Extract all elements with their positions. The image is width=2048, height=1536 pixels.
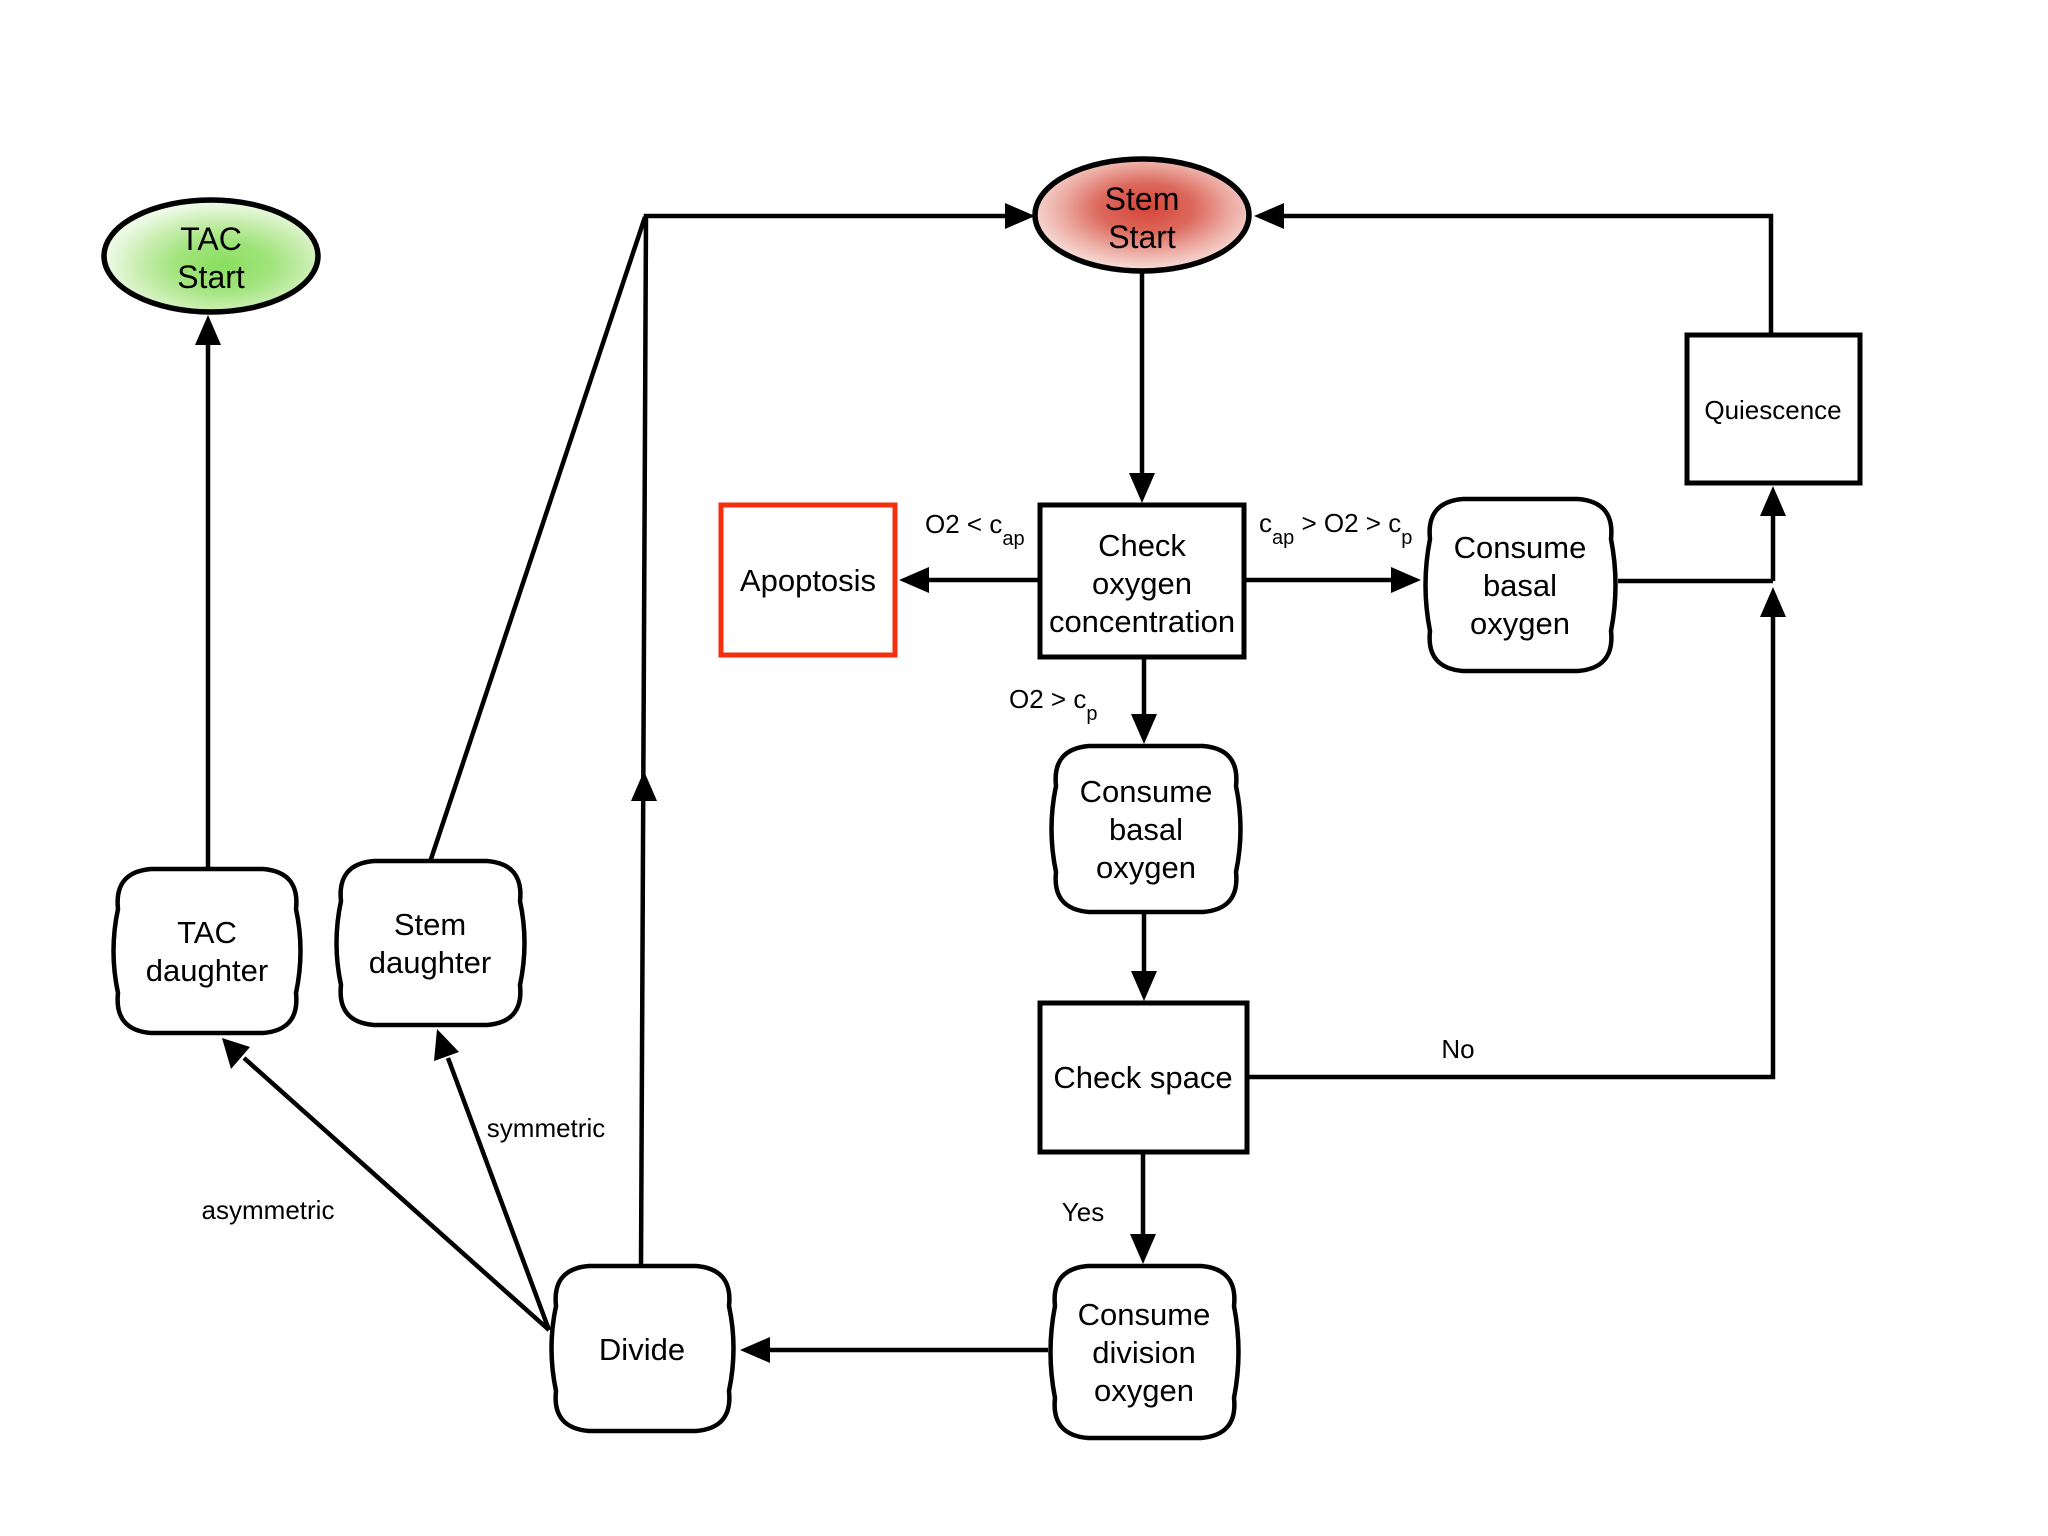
node Consume basal oxygen (right) [1426,499,1616,671]
svg-text:Stem: Stem [1105,181,1180,217]
wire: Consume basal oxygen (centre) down to Check space [1142,912,1147,971]
node Apoptosis (red box) [721,505,895,655]
wire: junction up into Quiescence [1771,516,1776,581]
node Consume division oxygen [1051,1266,1239,1438]
wire: Stem Start down to Check oxygen [1140,272,1145,474]
wire: Quiescence top up and left into Stem Start [1284,216,1771,334]
svg-text:daughter: daughter [146,953,268,988]
node TAC daughter [114,869,301,1033]
node Divide [552,1266,734,1431]
node Stem Start (red ellipse) [1035,159,1249,271]
node TAC Start (green ellipse) [104,200,318,312]
svg-text:Start: Start [1108,219,1176,255]
svg-text:asymmetric: asymmetric [202,1195,335,1225]
svg-text:Divide: Divide [599,1332,685,1367]
svg-text:division: division [1092,1335,1195,1370]
svg-text:No: No [1441,1034,1474,1064]
wire: Divide top up to corner then right into Stem Start [641,216,1007,1266]
node Check space [1040,1003,1247,1152]
svg-text:oxygen: oxygen [1092,566,1192,601]
svg-text:oxygen: oxygen [1094,1373,1194,1408]
svg-text:daughter: daughter [369,945,491,980]
svg-text:Check: Check [1098,528,1186,563]
svg-text:Start: Start [177,259,245,295]
svg-text:TAC: TAC [177,915,237,950]
wire: Divide diagonal to Stem daughter (symmetric) [448,1058,549,1330]
svg-text:Consume: Consume [1080,774,1213,809]
wire: Check oxygen down to Consume basal oxygen (centre) [1142,657,1147,714]
svg-text:symmetric: symmetric [487,1113,605,1143]
node Check oxygen concentration [1040,505,1244,657]
wire mid arrowhead on Divide-to-corner vertical [631,771,657,801]
svg-text:basal: basal [1109,812,1183,847]
svg-text:oxygen: oxygen [1470,606,1570,641]
wire: Divide diagonal to TAC daughter (asymmetric) [244,1058,549,1330]
svg-text:Check space: Check space [1053,1060,1232,1095]
svg-text:Quiescence: Quiescence [1704,395,1841,425]
svg-text:Stem: Stem [394,907,466,942]
wire: Stem daughter top diagonal to corner [430,217,645,862]
node Stem daughter [337,861,525,1025]
wire arrowhead into Stem Start left [1005,203,1035,229]
svg-text:TAC: TAC [180,221,242,257]
svg-text:Apoptosis: Apoptosis [740,563,876,598]
svg-text:concentration: concentration [1049,604,1235,639]
svg-text:oxygen: oxygen [1096,850,1196,885]
wire: TAC daughter top to TAC Start [206,344,211,869]
node Consume basal oxygen (centre) [1052,746,1241,912]
node Quiescence [1687,335,1860,483]
svg-text:Consume: Consume [1078,1297,1211,1332]
svg-text:Consume: Consume [1454,530,1587,565]
svg-text:basal: basal [1483,568,1557,603]
svg-text:Yes: Yes [1062,1197,1104,1227]
wire: Check space right then up (No path) to junction [1247,617,1773,1077]
wire: Check oxygen left to Apoptosis [928,578,1040,583]
wire: Consume basal oxygen (right) to junction [1618,579,1773,584]
wire: Consume division oxygen left to Divide [769,1348,1048,1353]
wire: Check oxygen right to Consume basal oxygen (right) [1244,578,1391,583]
wire: Check space down to Consume division oxygen [1141,1152,1146,1234]
